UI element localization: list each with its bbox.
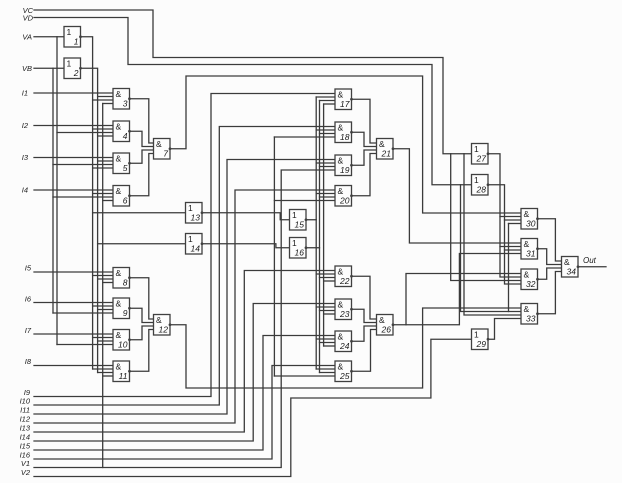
wire bus B stub to AND 23 — [320, 310, 336, 312]
svg-text:VD: VD — [23, 14, 34, 23]
svg-text:&: & — [524, 209, 530, 219]
wire /VB stub to AND 3 — [98, 96, 113, 98]
svg-text:26: 26 — [381, 325, 392, 335]
wire VB to inverter 2 — [34, 67, 64, 69]
wire AND 3 out to AND 7 — [130, 99, 154, 143]
wire V2 net to inverter 29 — [34, 339, 472, 476]
wire AND 8 out to AND 12 — [130, 278, 154, 319]
svg-text:33: 33 — [526, 314, 536, 324]
wire AND 24 out to AND 26 — [352, 326, 377, 341]
AND gate 32 — [521, 269, 539, 290]
svg-text:8: 8 — [123, 278, 128, 288]
svg-text:VB: VB — [22, 64, 32, 73]
wire V1 stub to AND 6 — [103, 200, 113, 202]
wire Out net — [578, 266, 606, 268]
wire bus C stub to AND 23 — [324, 313, 335, 315]
wire inverter 15 output bus — [315, 97, 317, 369]
svg-text:25: 25 — [339, 371, 350, 381]
wire I1 to AND 3 — [34, 92, 113, 94]
svg-text:1: 1 — [474, 175, 479, 185]
wire /VA stub to AND 9 — [93, 305, 113, 307]
wire I12 staircase to AND 20 — [34, 190, 335, 423]
svg-text:&: & — [524, 304, 530, 314]
wire inverter 15 output — [306, 219, 316, 221]
wire AND 17 out to AND 21 — [352, 99, 377, 143]
wire inv 28 stub to AND 30 — [505, 219, 522, 221]
wire /VB stub to AND 8 — [98, 278, 113, 280]
svg-text:1: 1 — [74, 37, 79, 47]
svg-text:&: & — [338, 332, 344, 342]
svg-text:V2: V2 — [21, 468, 31, 477]
wire VA stub to AND 10 — [57, 344, 113, 346]
wire V1 stub to AND 11 — [103, 375, 113, 377]
AND gate 24 — [335, 331, 353, 352]
wire I8 to AND 11 — [34, 365, 113, 367]
inverter 27 — [472, 144, 490, 165]
wire AND 11 out to AND 12 — [130, 330, 154, 372]
wire AND 21 output to AND 31 — [393, 149, 521, 243]
svg-text:&: & — [338, 267, 344, 277]
svg-text:&: & — [116, 154, 122, 164]
wire AND 33 out to AND 34 — [538, 272, 562, 314]
wire inverter 16 output — [306, 247, 320, 249]
wire bus A stub to AND 20 — [316, 193, 335, 195]
inverter 13 — [186, 203, 204, 224]
wire /VA stub to AND 6 — [93, 193, 113, 195]
wire inv 27 stub to AND 31 — [500, 246, 521, 248]
svg-text:I13: I13 — [20, 424, 31, 433]
svg-text:19: 19 — [340, 165, 350, 175]
svg-text:18: 18 — [340, 132, 350, 142]
svg-text:32: 32 — [526, 279, 536, 289]
wire bus A stub to AND 22 — [316, 273, 335, 275]
wire bus A stub to AND 23 — [316, 306, 335, 308]
wire bus B stub to AND 18 — [320, 133, 336, 135]
svg-text:I4: I4 — [22, 186, 28, 195]
svg-text:1: 1 — [188, 203, 193, 213]
inverter 15 — [290, 210, 308, 231]
svg-text:11: 11 — [119, 371, 128, 381]
svg-text:&: & — [338, 123, 344, 133]
wire bus C stub to AND 22 — [324, 280, 335, 282]
wire AND 9 out to AND 12 — [130, 308, 154, 322]
svg-text:&: & — [338, 300, 344, 310]
wire AND 31 out to AND 34 — [538, 249, 562, 265]
svg-text:I15: I15 — [20, 442, 31, 451]
AND gate 12 — [154, 315, 172, 336]
wire V1 stub to AND 8 — [103, 282, 113, 284]
wire inv 28 stub to AND 31 — [505, 249, 522, 251]
svg-text:34: 34 — [567, 267, 577, 277]
inverter 2 — [64, 58, 82, 79]
wire bus B stub to AND 24 — [320, 342, 336, 344]
wire inverter 16 output bus — [319, 101, 321, 373]
AND gate 11 — [113, 361, 131, 382]
svg-text:I2: I2 — [22, 121, 29, 130]
wire V1 net — [34, 170, 335, 468]
svg-text:I10: I10 — [20, 397, 31, 406]
svg-text:1: 1 — [67, 27, 72, 37]
wire AND 18 out to AND 21 — [352, 132, 377, 146]
svg-text:14: 14 — [191, 244, 201, 254]
wire I2 to AND 4 — [34, 125, 113, 127]
wire bus B stub to AND 20 — [320, 196, 336, 198]
wire inv 27 stub to AND 30 — [500, 216, 521, 218]
wire bus E vertical — [273, 137, 275, 376]
AND gate 19 — [335, 155, 353, 176]
wire AND 7 output to AND 30 — [170, 76, 521, 213]
inverter 28 — [472, 175, 490, 196]
wire VB stub to AND 5 — [53, 164, 113, 166]
svg-text:&: & — [338, 90, 344, 100]
svg-text:&: & — [524, 270, 530, 280]
svg-text:13: 13 — [191, 213, 201, 223]
AND gate 30 — [521, 209, 539, 230]
wire I15 staircase to AND 24 — [34, 336, 335, 451]
inverter 29 — [472, 329, 490, 350]
wire AND 26 output to AND 31 — [393, 254, 521, 325]
svg-text:7: 7 — [163, 149, 168, 159]
wire VD branch to AND 33 — [461, 185, 522, 312]
svg-text:&: & — [116, 362, 122, 372]
svg-text:&: & — [116, 122, 122, 132]
svg-text:10: 10 — [118, 340, 128, 350]
wire bus B stub to AND 19 — [320, 166, 336, 168]
wire bus A stub to AND 25 — [316, 368, 335, 370]
wire AND 32 out to AND 34 — [538, 268, 562, 279]
AND gate 3 — [113, 89, 131, 110]
svg-text:&: & — [116, 89, 122, 99]
wire bus E stub to AND 18 — [274, 136, 335, 138]
wire I5 to AND 8 — [34, 271, 113, 273]
svg-text:1: 1 — [474, 330, 479, 340]
svg-text:&: & — [116, 299, 122, 309]
svg-text:&: & — [338, 186, 344, 196]
wire bus C stub to AND 24 — [324, 345, 335, 347]
wire AND 26 branch to AND 32 — [406, 274, 521, 325]
svg-text:17: 17 — [340, 99, 350, 109]
svg-text:I3: I3 — [22, 153, 29, 162]
wire bus D vertical — [508, 224, 510, 312]
svg-text:&: & — [116, 268, 122, 278]
wire /VB stub to AND 4 — [98, 135, 113, 137]
inverter 14 — [186, 234, 204, 255]
svg-text:1: 1 — [67, 59, 72, 69]
wire inverter 14 out to inverter 16 — [202, 244, 290, 248]
wire I11 staircase to AND 19 — [34, 160, 335, 415]
wire bus C stub to AND 17 — [324, 103, 335, 105]
AND gate 21 — [377, 139, 395, 160]
svg-text:9: 9 — [123, 308, 128, 318]
svg-text:I12: I12 — [20, 415, 31, 424]
svg-text:I11: I11 — [20, 406, 30, 415]
wire AND 6 out to AND 7 — [130, 154, 154, 196]
wire bus A stub to AND 19 — [316, 162, 335, 164]
wire AND 4 out to AND 7 — [130, 131, 154, 146]
wire I10 staircase to AND 18 — [34, 127, 335, 406]
AND gate 34 — [562, 257, 580, 278]
wire /VA stub to AND 10 — [93, 337, 113, 339]
wire V1 stub to AND 3 — [103, 103, 113, 105]
AND gate 25 — [335, 361, 353, 382]
wire bus B stub to AND 17 — [320, 100, 336, 102]
svg-text:5: 5 — [123, 163, 128, 173]
svg-text:15: 15 — [295, 220, 305, 230]
svg-text:1: 1 — [474, 144, 479, 154]
svg-text:I8: I8 — [25, 357, 32, 366]
svg-text:2: 2 — [73, 68, 79, 78]
wire AND 20 out to AND 21 — [352, 154, 377, 196]
svg-text:&: & — [116, 186, 122, 196]
wire AND 12 output to AND 33 — [170, 308, 521, 388]
svg-text:22: 22 — [339, 276, 350, 286]
svg-text:16: 16 — [295, 248, 305, 258]
svg-text:V1: V1 — [21, 459, 30, 468]
wire bus E stub to AND 20 — [274, 200, 335, 202]
svg-text:1: 1 — [188, 234, 193, 244]
svg-text:24: 24 — [339, 341, 350, 351]
wire bus C vertical — [323, 104, 325, 346]
wire bus E stub to AND 25 — [274, 375, 335, 377]
svg-text:&: & — [564, 257, 570, 267]
AND gate 10 — [113, 330, 131, 351]
AND gate 4 — [113, 121, 131, 142]
svg-text:30: 30 — [526, 219, 536, 229]
svg-text:&: & — [156, 139, 162, 149]
wire VB stub to AND 9 — [53, 312, 113, 314]
wire I14 staircase to AND 23 — [34, 304, 335, 442]
wire inverter 29 output to AND 33 — [488, 319, 521, 340]
wire I4 to AND 6 — [34, 189, 113, 191]
AND gate 8 — [113, 268, 131, 289]
wire /VB stub to inverter 14 — [98, 243, 186, 245]
wire I3 to AND 5 — [34, 157, 113, 159]
wire inverter 28 output bus — [488, 185, 521, 284]
svg-text:&: & — [379, 139, 385, 149]
wire VC branch to AND 32 — [451, 154, 521, 281]
wire /VA stub to AND 3 — [93, 99, 113, 101]
svg-text:29: 29 — [476, 339, 487, 349]
wire inverter 2 output bus /VB — [81, 68, 98, 372]
wire inverter 13 out to inverter 15 — [202, 213, 290, 220]
wire I7 to AND 10 — [34, 333, 113, 335]
AND gate 5 — [113, 153, 131, 174]
svg-text:28: 28 — [476, 185, 487, 195]
wire inverter 27 branch to AND 33 — [464, 154, 521, 315]
AND gate 22 — [335, 266, 353, 287]
svg-text:6: 6 — [123, 196, 128, 206]
wire /VA stub to AND 4 — [93, 128, 113, 130]
AND gate 31 — [521, 239, 539, 260]
wire AND 10 out to AND 12 — [130, 326, 154, 340]
svg-text:Out: Out — [583, 256, 597, 265]
svg-text:23: 23 — [339, 309, 350, 319]
wire VA vertical bus — [56, 37, 58, 345]
wire /VB stub to AND 5 — [98, 160, 113, 162]
inverter 1 — [64, 27, 82, 48]
svg-text:&: & — [116, 330, 122, 340]
svg-text:I14: I14 — [20, 433, 30, 442]
wire AND 25 out to AND 26 — [352, 330, 377, 372]
wire bus A stub to AND 18 — [316, 129, 335, 131]
wire VC net — [34, 10, 472, 154]
wire inverter 27 output bus — [488, 154, 521, 277]
svg-text:&: & — [379, 315, 385, 325]
svg-text:I5: I5 — [25, 264, 32, 273]
svg-text:I7: I7 — [25, 326, 32, 335]
wire I9 staircase to AND 17 — [34, 94, 335, 397]
svg-text:I1: I1 — [22, 89, 28, 98]
wire bus A stub to AND 17 — [316, 96, 335, 98]
wire /VA stub to AND 5 — [93, 167, 113, 169]
inverter 16 — [290, 238, 308, 259]
AND gate 20 — [335, 186, 353, 207]
wire VA stub to AND 4 — [57, 132, 113, 134]
AND gate 17 — [335, 89, 353, 110]
svg-text:4: 4 — [123, 131, 128, 141]
wire AND 22 out to AND 26 — [352, 276, 377, 319]
AND gate 6 — [113, 186, 131, 207]
svg-text:12: 12 — [159, 325, 169, 335]
wire /VB stub to AND 11 — [98, 372, 113, 374]
svg-text:1: 1 — [292, 238, 297, 248]
wire VB stub to AND 6 — [53, 196, 113, 198]
wire /VA stub to AND 8 — [93, 275, 113, 277]
AND gate 18 — [335, 122, 353, 143]
AND gate 26 — [377, 315, 395, 336]
wire /VB stub to AND 9 — [98, 309, 113, 311]
svg-text:31: 31 — [526, 249, 536, 259]
svg-text:I6: I6 — [25, 295, 32, 304]
wire VD net — [34, 18, 472, 185]
wire /VB stub to AND 10 — [98, 340, 113, 342]
wire AND 5 out to AND 7 — [130, 150, 154, 163]
AND gate 7 — [154, 139, 172, 160]
wire bus A stub to AND 24 — [316, 338, 335, 340]
wire /VA stub to AND 11 — [93, 368, 113, 370]
svg-text:21: 21 — [381, 149, 392, 159]
wire AND 23 out to AND 26 — [352, 309, 377, 322]
wire inverter 1 output bus /VA — [81, 37, 93, 369]
svg-text:27: 27 — [476, 154, 487, 164]
wire /VA stub to inverter 13 — [93, 212, 186, 214]
wire I6 to AND 9 — [34, 302, 113, 304]
svg-text:20: 20 — [339, 196, 350, 206]
svg-text:3: 3 — [123, 99, 128, 109]
wire I16 staircase to AND 25 — [34, 366, 335, 460]
svg-text:&: & — [338, 362, 344, 372]
svg-text:&: & — [156, 315, 162, 325]
wire AND 19 out to AND 21 — [352, 150, 377, 165]
svg-text:1: 1 — [292, 210, 297, 220]
wire AND 30 out to AND 34 — [538, 219, 562, 261]
wire I13 staircase to AND 22 — [34, 271, 335, 433]
svg-text:VA: VA — [22, 33, 32, 42]
AND gate 9 — [113, 298, 131, 319]
AND gate 23 — [335, 299, 353, 320]
wire bus B stub to AND 22 — [320, 277, 336, 279]
wire bus B stub to AND 25 — [320, 372, 336, 374]
AND gate 33 — [521, 304, 539, 325]
wire V1 left riser — [102, 104, 104, 468]
svg-text:&: & — [338, 156, 344, 166]
svg-text:&: & — [524, 239, 530, 249]
wire VB vertical bus — [52, 68, 54, 313]
wire VA to inverter 1 — [34, 36, 64, 38]
wire bus D stub to AND 30 — [509, 223, 522, 225]
